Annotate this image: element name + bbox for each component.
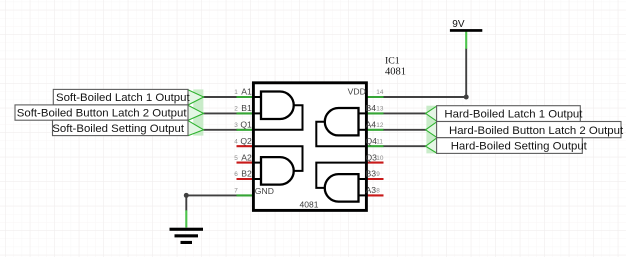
svg-text:B1: B1 [241,103,252,113]
svg-text:A3: A3 [366,185,377,195]
svg-text:11: 11 [376,138,383,145]
svg-text:1: 1 [234,89,238,96]
svg-text:10: 10 [376,155,384,162]
svg-text:Hard-Boiled Button Latch 2 Out: Hard-Boiled Button Latch 2 Output [449,125,624,137]
svg-text:5: 5 [234,155,238,162]
svg-text:A2: A2 [241,152,252,162]
svg-text:9V: 9V [452,19,465,30]
svg-text:14: 14 [376,89,384,96]
svg-text:8: 8 [376,188,380,195]
svg-text:2: 2 [234,106,238,113]
svg-text:Soft-Boiled Setting Output: Soft-Boiled Setting Output [52,123,185,135]
svg-text:IC1: IC1 [385,55,400,66]
svg-text:B2: B2 [241,169,252,179]
svg-text:12: 12 [376,122,384,129]
svg-text:Soft-Boiled Latch 1 Output: Soft-Boiled Latch 1 Output [56,92,190,104]
svg-text:Hard-Boiled Setting Output: Hard-Boiled Setting Output [451,141,588,153]
svg-text:GND: GND [255,186,274,196]
svg-text:Soft-Boiled Button Latch 2 Out: Soft-Boiled Button Latch 2 Output [17,108,188,120]
svg-text:3: 3 [234,122,238,129]
svg-text:4081: 4081 [300,200,319,210]
svg-text:A1: A1 [241,87,252,97]
svg-text:B3: B3 [366,169,377,179]
svg-text:B4: B4 [366,103,377,113]
svg-text:4: 4 [234,138,238,145]
svg-text:A4: A4 [366,120,377,130]
svg-text:4081: 4081 [385,66,406,77]
svg-text:7: 7 [234,188,238,195]
svg-text:6: 6 [234,171,238,178]
svg-text:Q2: Q2 [240,136,252,146]
svg-text:13: 13 [376,106,384,113]
svg-text:VDD: VDD [348,86,366,96]
svg-text:Q1: Q1 [240,120,252,130]
svg-text:9: 9 [376,171,380,178]
svg-text:Hard-Boiled Latch 1 Output: Hard-Boiled Latch 1 Output [444,109,583,121]
